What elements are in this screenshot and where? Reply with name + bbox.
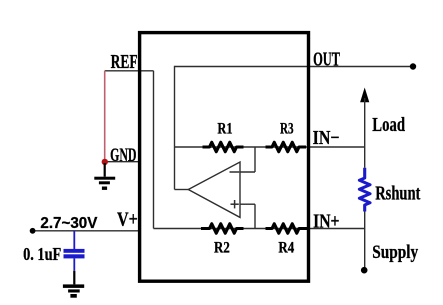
wire REF row bbox=[105, 70, 154, 72]
svg-text:IN−: IN− bbox=[313, 127, 340, 149]
label R1 bbox=[217, 121, 232, 138]
svg-text:OUT: OUT bbox=[313, 48, 340, 70]
wire feedback vertical bbox=[174, 66, 176, 190]
node GND junction red dot bbox=[102, 159, 108, 165]
svg-text:0. 1uF: 0. 1uF bbox=[23, 244, 61, 264]
svg-text:REF: REF bbox=[111, 51, 138, 73]
label OUT bbox=[313, 48, 340, 70]
resistor R3 bbox=[266, 142, 307, 151]
wire GND row bbox=[105, 161, 140, 163]
label R3 bbox=[280, 121, 294, 138]
label IN- bbox=[313, 127, 340, 149]
resistor R2 bbox=[201, 224, 244, 233]
wire Rshunt to IN+ bbox=[364, 212, 366, 229]
ground capacitor ground symbol bbox=[63, 284, 84, 297]
wire non-inverting input bbox=[240, 203, 256, 205]
resistor R1 bbox=[203, 142, 244, 151]
svg-text:R2: R2 bbox=[214, 240, 230, 257]
svg-text:2.7~30V: 2.7~30V bbox=[40, 215, 97, 232]
svg-text:Rshunt: Rshunt bbox=[375, 184, 421, 205]
node V+ left terminal dot bbox=[30, 228, 36, 234]
wire capacitor top lead blue bbox=[73, 231, 75, 249]
wire red REF-to-GND vertical bbox=[104, 71, 106, 162]
svg-text:GND: GND bbox=[110, 145, 136, 166]
resistor Rshunt blue bbox=[359, 168, 370, 212]
wire IN- row bbox=[175, 146, 365, 148]
wire inverting input bbox=[230, 171, 256, 173]
label REF bbox=[111, 51, 138, 73]
svg-text:Load: Load bbox=[372, 114, 405, 136]
label Load bbox=[372, 114, 405, 136]
label GND bbox=[110, 145, 136, 166]
svg-text:R3: R3 bbox=[280, 121, 294, 138]
wire V+ supply row bbox=[33, 230, 140, 232]
label 0.1uF bbox=[23, 244, 61, 264]
label Supply bbox=[372, 242, 418, 263]
wire IN+ to Supply bbox=[364, 229, 366, 271]
op-amp U1 triangle bbox=[188, 162, 240, 217]
wire inverting node vertical bbox=[254, 147, 256, 172]
svg-text:R4: R4 bbox=[278, 240, 294, 257]
op-amp minus marker bbox=[230, 171, 240, 173]
resistor R4 bbox=[266, 224, 308, 233]
label R4 bbox=[278, 240, 294, 257]
label V+ bbox=[117, 209, 138, 231]
node OUT terminal dot bbox=[410, 63, 416, 69]
IC body boundary box bbox=[140, 33, 309, 282]
ground GND symbol bbox=[94, 163, 115, 190]
wire capacitor bottom lead blue bbox=[73, 258, 75, 270]
op-amp plus marker bbox=[231, 200, 239, 208]
label Rshunt bbox=[375, 184, 421, 205]
label 2.7~30V bbox=[40, 215, 97, 232]
capacitor C1 0.1uF plates bbox=[64, 249, 85, 259]
label R2 bbox=[214, 240, 230, 257]
wire non-inverting node vertical bbox=[254, 204, 256, 228]
svg-text:R1: R1 bbox=[217, 121, 232, 138]
wire IN- to Rshunt bbox=[364, 147, 366, 168]
svg-text:Supply: Supply bbox=[372, 242, 418, 263]
wire OUT row (feedback to OUT terminal) bbox=[175, 66, 414, 68]
label IN+ bbox=[313, 210, 339, 232]
wire REF internal vertical bbox=[153, 71, 155, 229]
arrow Load current bbox=[360, 88, 369, 148]
svg-text:IN+: IN+ bbox=[313, 210, 339, 232]
wire op-amp output stub bbox=[175, 189, 189, 191]
node Supply terminal dot bbox=[361, 267, 368, 274]
svg-text:V+: V+ bbox=[117, 209, 138, 231]
wire capacitor ground stub bbox=[73, 271, 75, 285]
wire IN+ row bbox=[154, 228, 365, 230]
